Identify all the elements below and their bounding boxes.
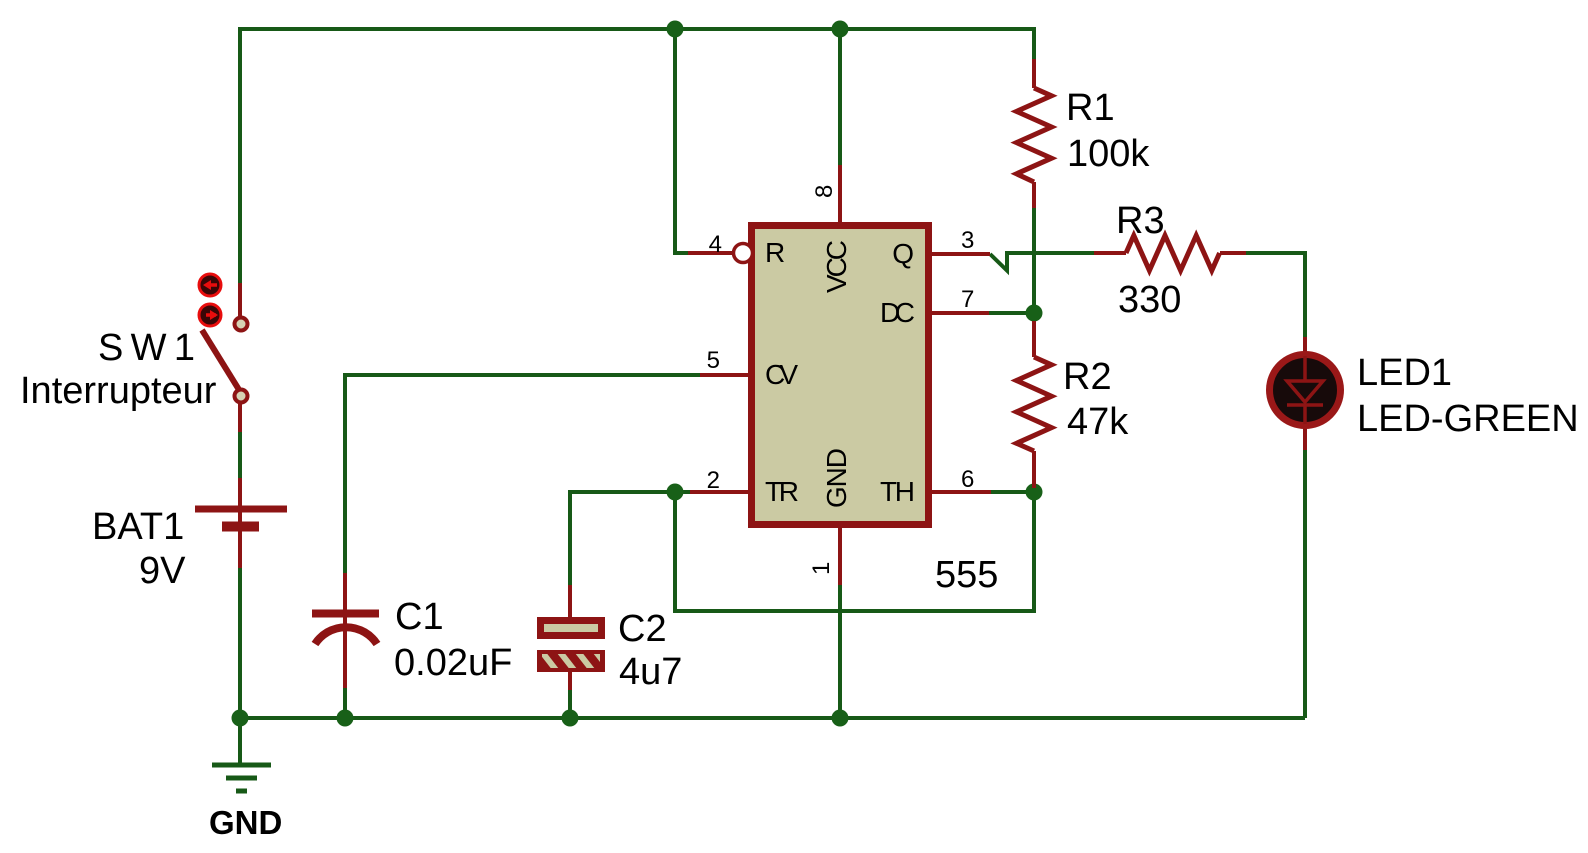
svg-text:Interrupteur: Interrupteur [20, 370, 217, 412]
svg-text:C1: C1 [395, 596, 444, 638]
svg-text:Q: Q [892, 238, 914, 269]
svg-text:TH: TH [880, 476, 915, 507]
svg-text:GND: GND [209, 804, 282, 841]
svg-text:555: 555 [935, 554, 998, 596]
svg-text:DC: DC [880, 297, 915, 328]
svg-text:BAT1: BAT1 [92, 506, 184, 548]
svg-text:R: R [765, 237, 785, 268]
svg-text:R2: R2 [1063, 356, 1112, 398]
svg-text:TR: TR [765, 476, 799, 507]
svg-text:4: 4 [709, 231, 722, 258]
svg-text:GND: GND [821, 448, 852, 508]
svg-text:100k: 100k [1067, 133, 1150, 175]
svg-text:1: 1 [808, 562, 835, 575]
svg-text:SW1: SW1 [98, 327, 195, 369]
svg-text:7: 7 [961, 286, 974, 313]
svg-text:47k: 47k [1067, 401, 1129, 443]
svg-text:6: 6 [961, 466, 974, 493]
svg-text:R1: R1 [1066, 87, 1115, 129]
svg-text:LED-GREEN: LED-GREEN [1357, 398, 1579, 440]
svg-text:5: 5 [707, 347, 720, 374]
svg-text:R3: R3 [1116, 200, 1165, 242]
svg-text:330: 330 [1118, 279, 1181, 321]
svg-text:3: 3 [961, 227, 974, 254]
svg-text:0.02uF: 0.02uF [394, 642, 512, 684]
svg-text:C2: C2 [618, 608, 667, 650]
svg-text:LED1: LED1 [1357, 352, 1452, 394]
svg-text:CV: CV [765, 359, 798, 390]
svg-text:2: 2 [707, 467, 720, 494]
svg-text:8: 8 [811, 185, 838, 198]
svg-text:VCC: VCC [821, 240, 852, 293]
svg-text:4u7: 4u7 [619, 651, 682, 693]
svg-text:9V: 9V [139, 550, 186, 592]
